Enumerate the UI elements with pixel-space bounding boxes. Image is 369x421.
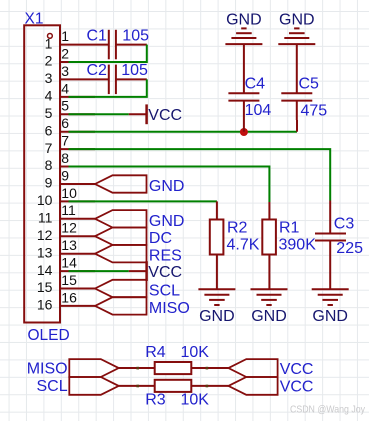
svg-text:11: 11	[61, 202, 76, 218]
svg-text:C1: C1	[87, 27, 108, 44]
connector X1 body	[24, 25, 60, 322]
svg-text:14: 14	[61, 255, 77, 271]
svg-text:4: 4	[61, 80, 69, 96]
pin 11	[60, 218, 95, 220]
svg-text:9: 9	[45, 175, 53, 191]
ground GND top C4	[225, 28, 262, 93]
wire pin 8 to R1	[69, 167, 270, 203]
junction dot R4 left	[136, 367, 139, 370]
svg-text:SCL: SCL	[36, 378, 67, 395]
svg-text:VCC: VCC	[280, 378, 314, 395]
wire R4 to VCC	[191, 367, 228, 369]
svg-text:1: 1	[45, 35, 53, 51]
pin 1	[60, 44, 109, 46]
svg-text:11: 11	[38, 210, 53, 226]
svg-text:9: 9	[61, 167, 69, 183]
resistor R1	[262, 202, 276, 289]
port RES pin13	[95, 245, 147, 262]
svg-text:VCC: VCC	[148, 107, 182, 124]
wire pin 10 to R2	[69, 200, 217, 202]
pin 5	[60, 113, 95, 115]
svg-text:C5: C5	[299, 75, 320, 92]
svg-text:4: 4	[45, 88, 53, 104]
svg-text:16: 16	[61, 289, 77, 305]
wire C1 to pin 2	[69, 45, 147, 62]
wire SCL to R3	[119, 385, 155, 387]
svg-text:10K: 10K	[181, 344, 210, 361]
pin 3	[60, 78, 109, 80]
ground GND bottom C3	[312, 289, 349, 305]
svg-text:GND: GND	[312, 308, 348, 325]
port MISO pin16	[95, 297, 147, 314]
svg-text:SCL: SCL	[149, 283, 180, 300]
svg-text:5: 5	[61, 98, 69, 114]
svg-text:2: 2	[45, 53, 53, 69]
pin 6	[60, 131, 95, 133]
svg-text:3: 3	[45, 70, 53, 86]
pin 10	[60, 200, 95, 202]
svg-text:6: 6	[45, 122, 53, 138]
ground GND bottom R2	[198, 289, 235, 305]
svg-text:RES: RES	[149, 248, 182, 265]
svg-text:104: 104	[245, 102, 272, 119]
pin 2	[60, 61, 95, 63]
svg-text:14: 14	[37, 262, 53, 278]
port VCC bottom right	[228, 377, 277, 395]
pin 9	[60, 183, 95, 185]
capacitor C1	[109, 30, 147, 60]
svg-text:10: 10	[61, 185, 77, 201]
svg-text:C2: C2	[87, 62, 108, 79]
wire pin 14 to VCC	[69, 270, 129, 272]
svg-text:2: 2	[61, 45, 69, 61]
svg-text:R2: R2	[227, 219, 248, 236]
svg-text:225: 225	[336, 240, 363, 257]
svg-text:390K: 390K	[279, 237, 317, 254]
junction dot R3 left	[136, 385, 139, 388]
svg-text:GND: GND	[149, 213, 185, 230]
junction dot R4 right	[206, 367, 209, 370]
pin 16	[60, 305, 95, 307]
svg-text:8: 8	[45, 157, 53, 173]
svg-text:DC: DC	[149, 230, 172, 247]
svg-text:15: 15	[37, 279, 53, 295]
junction	[240, 128, 248, 136]
capacitor C2	[109, 65, 147, 95]
pin 15	[60, 288, 95, 290]
svg-text:105: 105	[121, 62, 148, 79]
svg-text:105: 105	[122, 27, 149, 44]
ground GND bottom R1	[251, 289, 288, 305]
svg-text:MISO: MISO	[149, 300, 190, 317]
capacitor C5	[281, 93, 312, 131]
svg-text:13: 13	[61, 237, 77, 253]
svg-text:GND: GND	[149, 178, 185, 195]
wire MISO to R4	[119, 367, 155, 369]
svg-text:R3: R3	[145, 392, 166, 409]
svg-text:7: 7	[61, 133, 69, 149]
capacitor C4	[228, 93, 259, 131]
pin names inside	[37, 35, 53, 312]
wire pin 7 to C3	[69, 149, 331, 200]
power port VCC pin14	[129, 261, 147, 281]
svg-text:8: 8	[61, 150, 69, 166]
svg-text:6: 6	[61, 115, 69, 131]
port VCC top right	[228, 359, 277, 377]
svg-text:10: 10	[37, 192, 53, 208]
wire pin 6 to C4/C5	[69, 131, 298, 133]
svg-text:5: 5	[45, 105, 53, 121]
svg-text:X1: X1	[25, 10, 44, 27]
junction dot R3 right	[206, 385, 209, 388]
port SCL pin15	[95, 280, 147, 297]
port SCL bottom	[69, 377, 118, 395]
wire C2 to pin 4	[69, 79, 147, 97]
svg-text:475: 475	[301, 102, 328, 119]
svg-text:15: 15	[61, 272, 77, 288]
wire R3 to VCC	[191, 385, 228, 387]
svg-text:3: 3	[61, 63, 69, 79]
svg-text:16: 16	[37, 297, 53, 313]
svg-text:R1: R1	[279, 219, 300, 236]
pin 7	[60, 148, 95, 150]
svg-text:C3: C3	[334, 215, 355, 232]
svg-text:1: 1	[61, 28, 69, 44]
svg-text:12: 12	[61, 220, 77, 236]
svg-text:13: 13	[37, 244, 53, 260]
pin 12	[60, 235, 95, 237]
port GND pin11	[95, 210, 147, 227]
wire pin 5 to VCC	[69, 113, 129, 115]
resistor R4	[155, 362, 192, 374]
power port VCC pin5	[129, 104, 147, 124]
pin 1 indicator circle	[48, 34, 53, 39]
pin 14	[60, 270, 95, 272]
svg-text:R4: R4	[145, 344, 166, 361]
svg-text:GND: GND	[251, 308, 287, 325]
svg-text:VCC: VCC	[148, 264, 182, 281]
svg-text:OLED: OLED	[28, 327, 70, 344]
port GND pin9	[95, 175, 147, 192]
resistor R2	[210, 201, 224, 289]
resistor R3	[155, 380, 192, 392]
svg-text:MISO: MISO	[27, 361, 68, 378]
svg-text:GND: GND	[226, 11, 262, 28]
svg-text:7: 7	[45, 140, 53, 156]
port DC pin12	[95, 228, 147, 245]
pin 13	[60, 253, 95, 255]
svg-text:CSDN @Wang Joy: CSDN @Wang Joy	[290, 405, 366, 416]
svg-text:C4: C4	[245, 75, 266, 92]
port MISO bottom	[69, 359, 118, 377]
svg-text:VCC: VCC	[280, 361, 314, 378]
pin 8	[60, 166, 95, 168]
svg-text:GND: GND	[279, 11, 315, 28]
ground GND top C5	[278, 28, 315, 93]
svg-text:4.7K: 4.7K	[227, 236, 260, 253]
svg-text:10K: 10K	[181, 392, 210, 409]
pin numbers outside	[61, 28, 77, 305]
pin 4	[60, 96, 95, 98]
svg-text:12: 12	[37, 227, 53, 243]
capacitor C3	[315, 201, 346, 290]
svg-text:GND: GND	[199, 308, 235, 325]
